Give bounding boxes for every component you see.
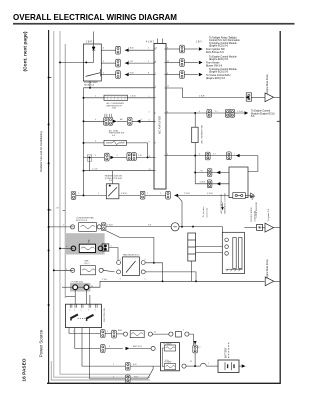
stub xyxy=(162,39,164,44)
svg-text:RELAY 5-6: RELAY 5-6 xyxy=(84,84,95,87)
svg-text:2 W-R: 2 W-R xyxy=(107,224,113,226)
A/C dual pressure switch connector pair xyxy=(104,117,109,125)
FL internal wire xyxy=(162,348,164,367)
wire xyxy=(114,156,127,158)
stator coil xyxy=(233,238,236,269)
svg-text:(Engine ECU) 5-6: (Engine ECU) 5-6 xyxy=(209,71,229,74)
main bus wire (left black vertical) xyxy=(48,30,50,383)
heater blower switch xyxy=(106,184,119,199)
junction xyxy=(194,155,196,157)
svg-text:B-R: B-R xyxy=(133,364,137,366)
capacitor stub xyxy=(222,203,224,208)
svg-text:To Junction: To Junction xyxy=(202,206,205,218)
wire relay feed from bus xyxy=(60,61,83,63)
wire block bottom drop xyxy=(191,261,193,281)
junction xyxy=(83,120,85,122)
wire xyxy=(251,96,265,98)
wire drop right xyxy=(248,156,258,172)
wire fan no.2 row xyxy=(54,269,74,271)
wire loop row to noise filter xyxy=(166,88,244,98)
wire to clutch xyxy=(174,194,233,196)
connector xyxy=(206,152,211,160)
blower resistor xyxy=(104,95,128,100)
page arrow A xyxy=(265,93,274,102)
wire gray elbow outer xyxy=(51,361,150,380)
label xyxy=(107,102,125,110)
amplifier row C xyxy=(166,74,180,76)
contact AM2 xyxy=(85,314,94,321)
amplifier top stubs xyxy=(157,39,159,44)
ring xyxy=(182,364,186,368)
junction xyxy=(83,142,85,144)
bottom page border xyxy=(47,382,281,384)
svg-text:7: 7 xyxy=(155,73,156,75)
ring xyxy=(169,332,173,336)
svg-text:Power Source: Power Source xyxy=(39,329,44,357)
wire xyxy=(132,120,154,122)
svg-text:4 L-W 2: 4 L-W 2 xyxy=(146,42,155,44)
junction xyxy=(83,194,85,196)
svg-text:Engine Main Relay: Engine Main Relay xyxy=(267,258,269,278)
svg-text:MOTOR 2-6: MOTOR 2-6 xyxy=(76,220,88,222)
wire gray bus 2 xyxy=(60,31,150,374)
svg-text:2 B-R: 2 B-R xyxy=(199,95,205,97)
wire ig row3 xyxy=(82,328,125,367)
tick nub xyxy=(63,210,66,212)
wire condenser fan row xyxy=(49,226,74,228)
amplifier pin stubs xyxy=(154,49,166,171)
wire xyxy=(145,194,166,196)
wire xyxy=(105,332,111,334)
connector xyxy=(227,152,232,160)
svg-text:4 W-R: 4 W-R xyxy=(207,193,213,195)
fuse ALT xyxy=(193,345,198,353)
wire code labels xyxy=(56,48,243,379)
svg-text:1 B-W: 1 B-W xyxy=(128,48,134,50)
arrow to label xyxy=(199,73,203,76)
svg-text:(IGNITION): (IGNITION) xyxy=(254,211,256,222)
wire ig row2 drop xyxy=(75,328,100,349)
svg-text:To Igniter 5-6: To Igniter 5-6 xyxy=(267,208,270,222)
battery cells xyxy=(225,362,234,370)
wire thermistor drop xyxy=(194,113,196,184)
svg-text:BATTERY: BATTERY xyxy=(224,347,227,358)
A/C compressor assembly xyxy=(229,167,248,198)
label A/C dual pressure SW xyxy=(109,129,124,137)
wire stub up xyxy=(93,32,95,45)
svg-text:2 W-L: 2 W-L xyxy=(102,279,108,281)
ring xyxy=(151,346,155,350)
wire relay row 3 xyxy=(101,74,115,76)
wire xyxy=(116,333,123,335)
wire pair feed xyxy=(89,295,91,304)
ring terminal dark xyxy=(71,246,76,251)
page arrow C xyxy=(265,277,274,286)
svg-text:1 B-W: 1 B-W xyxy=(130,96,136,98)
svg-text:5 W-B: 5 W-B xyxy=(128,72,134,74)
pin labels xyxy=(103,48,150,75)
connector xyxy=(116,71,121,79)
wire clutch feed row 1 xyxy=(195,172,229,174)
junction xyxy=(59,61,61,63)
relay coil diode xyxy=(92,47,95,50)
junction xyxy=(48,250,50,252)
wire xyxy=(136,156,154,158)
connector xyxy=(140,191,145,199)
clutch arrow xyxy=(251,193,255,198)
wire xyxy=(125,62,154,64)
svg-text:Module (Engine ECU): Module (Engine ECU) xyxy=(251,112,275,115)
wire xyxy=(184,62,197,64)
arrow xyxy=(174,194,178,197)
wire xyxy=(62,286,74,288)
wire xyxy=(184,48,197,50)
wire xyxy=(85,290,87,305)
wire relay to loop xyxy=(89,81,91,88)
svg-text:2 W-R: 2 W-R xyxy=(184,193,190,195)
junction xyxy=(153,262,155,264)
connector xyxy=(108,117,113,125)
wire diagonal xyxy=(130,366,153,379)
wire long to lock sensor xyxy=(106,226,171,228)
junction xyxy=(83,170,85,172)
wire xyxy=(119,194,140,196)
ground xyxy=(250,196,255,199)
arrow xyxy=(125,49,129,52)
condenser fan motor no.2 xyxy=(80,266,95,275)
svg-text:(Engine ECU) 5-6: (Engine ECU) 5-6 xyxy=(206,77,226,80)
svg-text:5: 5 xyxy=(149,111,150,113)
svg-text:(Cont. next page): (Cont. next page) xyxy=(23,31,29,71)
arrow to label xyxy=(199,47,203,50)
A/C thermistor xyxy=(192,127,198,142)
junction xyxy=(48,304,50,306)
svg-text:(PUSH TYPE SW): (PUSH TYPE SW) xyxy=(105,178,122,180)
wire to amplifier xyxy=(125,49,154,51)
top wire labels xyxy=(86,42,202,44)
A/C thermo switch xyxy=(104,140,126,145)
svg-text:2 B-R 1: 2 B-R 1 xyxy=(86,42,95,44)
junction ticks on main bus xyxy=(48,76,50,78)
ring xyxy=(148,332,152,336)
battery sense dashed wire xyxy=(228,343,230,359)
connector xyxy=(166,191,171,199)
wire stub xyxy=(112,171,114,184)
arrow xyxy=(137,120,141,123)
junction xyxy=(48,226,50,228)
svg-text:NO. 2: NO. 2 xyxy=(85,263,90,265)
label xyxy=(184,193,213,195)
wire xyxy=(194,353,196,366)
amplifier row D xyxy=(166,112,244,114)
wire diagonal to relay feed xyxy=(106,231,154,263)
stub xyxy=(194,343,196,346)
tick nub xyxy=(49,76,52,78)
svg-text:2 L-Y: 2 L-Y xyxy=(121,141,127,143)
connector xyxy=(127,153,132,161)
FL AM2 xyxy=(164,364,175,370)
svg-text:15A: 15A xyxy=(112,107,116,110)
heater main relay xyxy=(83,44,101,81)
wire xyxy=(78,286,84,288)
wire xyxy=(145,272,196,281)
wire bus 3 xyxy=(64,44,66,298)
svg-text:W: W xyxy=(154,331,156,333)
junction xyxy=(195,280,197,282)
junction xyxy=(48,162,50,164)
svg-text:W: W xyxy=(91,286,93,288)
ring terminal xyxy=(71,225,75,229)
arrow xyxy=(236,154,240,157)
svg-text:A/C THERMISTOR: A/C THERMISTOR xyxy=(201,124,204,143)
junction xyxy=(162,280,164,282)
wire xyxy=(129,347,151,349)
svg-text:NOISE FILTER: NOISE FILTER xyxy=(251,207,253,222)
sensor pins xyxy=(225,238,229,255)
wire left feed loop xyxy=(84,88,155,196)
svg-text:FL FAN 30A: FL FAN 30A xyxy=(72,281,84,284)
ignition switch xyxy=(66,304,102,327)
compressor speed sensor oval xyxy=(171,223,179,231)
switch contact dot xyxy=(109,185,111,187)
label xyxy=(85,260,90,265)
wire block to lock sensor xyxy=(196,246,223,248)
junction xyxy=(48,123,50,125)
svg-text:FL AM2: FL AM2 xyxy=(165,361,173,364)
junction xyxy=(194,365,196,367)
ring xyxy=(185,332,189,336)
radiator fan motor xyxy=(79,244,95,252)
down arrow xyxy=(221,207,224,210)
fan connector dark xyxy=(102,244,109,251)
connector xyxy=(207,109,212,117)
junction xyxy=(181,226,183,228)
wire xyxy=(117,120,128,122)
ring xyxy=(123,332,127,336)
FL main xyxy=(164,345,175,351)
fusible link ring B xyxy=(84,285,89,290)
wire xyxy=(179,227,222,233)
relay pins xyxy=(117,261,146,274)
ring terminal dark xyxy=(98,246,103,251)
fusible link AM1 xyxy=(130,331,144,338)
wire xyxy=(244,227,256,229)
svg-text:A/C COMPRESSOR: A/C COMPRESSOR xyxy=(220,193,223,213)
ring terminal xyxy=(71,268,75,272)
wire xyxy=(84,97,105,99)
connector xyxy=(132,153,137,161)
wire drop right xyxy=(189,334,193,345)
svg-text:MAGNETIC CLUTCH: MAGNETIC CLUTCH xyxy=(224,192,227,213)
wire to page arrow row xyxy=(89,281,265,287)
svg-text:2 L-W: 2 L-W xyxy=(92,169,98,171)
A/C compressor lock sensor unit xyxy=(222,232,244,273)
title underline xyxy=(13,23,295,25)
hatch base xyxy=(225,269,242,271)
junction xyxy=(85,61,87,63)
arrow to label xyxy=(244,111,248,114)
svg-text:3 L-R: 3 L-R xyxy=(128,61,134,63)
svg-text:AM2 W-R: AM2 W-R xyxy=(133,345,142,348)
crossover hop xyxy=(200,363,206,366)
wire xyxy=(100,226,103,228)
page arrow B xyxy=(265,223,274,232)
wire xyxy=(126,143,147,158)
ring terminal xyxy=(99,268,103,272)
connector xyxy=(180,59,185,67)
svg-text:4 B-W: 4 B-W xyxy=(121,193,127,195)
pin labels xyxy=(69,310,95,312)
wire xyxy=(184,74,197,76)
wire drop xyxy=(89,157,91,170)
junction xyxy=(194,172,196,174)
connector xyxy=(126,362,131,370)
terminal box xyxy=(176,331,182,337)
junction xyxy=(89,87,91,89)
connector xyxy=(180,45,185,53)
tick nub xyxy=(49,209,52,211)
svg-text:1: 1 xyxy=(81,310,82,312)
svg-text:10: 10 xyxy=(155,47,157,49)
ring terminal xyxy=(97,225,101,229)
svg-text:ECU-B Fuse 5-6: ECU-B Fuse 5-6 xyxy=(206,51,224,54)
wire xyxy=(152,333,168,335)
svg-text:IGNITION SW: IGNITION SW xyxy=(104,307,106,322)
connector xyxy=(230,109,235,117)
wire relay row 1 xyxy=(101,49,115,51)
wire xyxy=(196,252,223,254)
arrow xyxy=(125,73,129,76)
wire xyxy=(84,142,105,144)
junction xyxy=(147,156,149,158)
junction xyxy=(59,247,61,249)
wire xyxy=(239,365,241,367)
condenser fan motor xyxy=(79,223,97,232)
svg-text:FL MAIN: FL MAIN xyxy=(164,343,173,346)
alternator arrow xyxy=(194,341,197,345)
wire branch diagonal xyxy=(178,196,183,227)
wire heater row xyxy=(84,170,155,172)
arrow xyxy=(113,120,117,123)
connector xyxy=(101,223,106,231)
svg-text:4 W-R: 4 W-R xyxy=(200,182,206,184)
right page border xyxy=(279,31,281,383)
wire xyxy=(262,227,265,229)
fuse connector xyxy=(116,46,121,54)
connector xyxy=(126,375,131,383)
svg-text:W-B: W-B xyxy=(134,377,139,379)
wire relay to feed xyxy=(146,263,163,282)
svg-text:2: 2 xyxy=(69,310,70,312)
connector xyxy=(105,153,110,161)
connector left of switch xyxy=(71,192,76,200)
svg-text:Radiator Fan and Air Condition: Radiator Fan and Air Conditioning xyxy=(39,131,43,172)
fuse AM1 xyxy=(112,330,117,338)
wire xyxy=(105,347,123,349)
connector xyxy=(101,330,106,338)
junction xyxy=(192,226,194,228)
svg-text:(Engine ECU) 5-6: (Engine ECU) 5-6 xyxy=(209,45,229,48)
svg-text:6: 6 xyxy=(88,310,89,312)
svg-text:A/C AMPLIFIER: A/C AMPLIFIER xyxy=(157,116,161,134)
amplifier row E xyxy=(166,155,258,157)
connector xyxy=(180,71,185,79)
contact link dashed xyxy=(78,317,86,319)
engine room relay block no.2 xyxy=(65,233,105,254)
wire to battery xyxy=(206,365,218,367)
wire xyxy=(125,74,154,76)
svg-text:1 B-Y: 1 B-Y xyxy=(196,42,202,44)
svg-text:4: 4 xyxy=(74,310,75,312)
wire to border xyxy=(274,227,281,229)
wire gray bus 1 xyxy=(54,31,150,377)
wire ig row1 drop xyxy=(69,328,100,334)
rotor xyxy=(239,238,242,269)
noise filter xyxy=(257,224,263,230)
wire to border xyxy=(274,280,280,282)
wire clutch feed row 2 xyxy=(195,183,229,185)
wire xyxy=(60,247,74,249)
pin number labels xyxy=(149,47,170,171)
svg-text:Connector: Connector xyxy=(206,207,209,217)
connector xyxy=(101,345,106,353)
connector xyxy=(127,117,132,125)
connector xyxy=(225,109,230,117)
arrow xyxy=(125,61,129,64)
junction xyxy=(89,156,91,158)
svg-text:Engine Main Relay: Engine Main Relay xyxy=(267,73,269,93)
contact AM1 xyxy=(70,313,79,320)
svg-text:2: 2 xyxy=(155,86,156,88)
wire to relay pin xyxy=(103,270,114,272)
top pin stubs xyxy=(70,304,97,308)
wire xyxy=(130,365,160,367)
splice box xyxy=(87,155,91,161)
arrow xyxy=(217,171,221,174)
svg-text:OVERALL ELECTRICAL WIRING DIAG: OVERALL ELECTRICAL WIRING DIAGRAM xyxy=(13,12,177,22)
wire feed jog xyxy=(66,296,75,298)
noise filter dot xyxy=(259,226,261,228)
arrow xyxy=(217,182,221,185)
connector block xyxy=(188,233,196,261)
arrow xyxy=(126,347,130,350)
fusible link ring A xyxy=(73,285,78,290)
svg-text:8: 8 xyxy=(155,61,156,63)
junction xyxy=(53,269,55,271)
wire row magnetic clutch xyxy=(84,156,105,158)
wire to ground xyxy=(245,195,252,198)
wire xyxy=(128,97,155,99)
A/C amplifier xyxy=(154,44,166,190)
amplifier row A xyxy=(166,48,180,50)
battery xyxy=(218,360,239,372)
tick on right border xyxy=(277,120,280,122)
destination label xyxy=(251,110,275,118)
connector xyxy=(207,169,212,177)
svg-text:W: W xyxy=(190,361,192,363)
wire xyxy=(76,194,106,196)
label heater sub switch xyxy=(105,175,122,183)
wire ig row4 xyxy=(90,328,126,379)
wire to relay xyxy=(109,248,118,261)
magnetic clutch coil xyxy=(233,193,246,199)
svg-text:1 W: 1 W xyxy=(138,155,142,157)
svg-text:1 G-W: 1 G-W xyxy=(237,111,243,113)
wire row pressure sw xyxy=(84,120,106,122)
svg-text:FAN RELAY NO.2: FAN RELAY NO.2 xyxy=(123,253,140,256)
battery arrow xyxy=(242,364,246,367)
engine room relay block no.3 xyxy=(70,283,90,292)
